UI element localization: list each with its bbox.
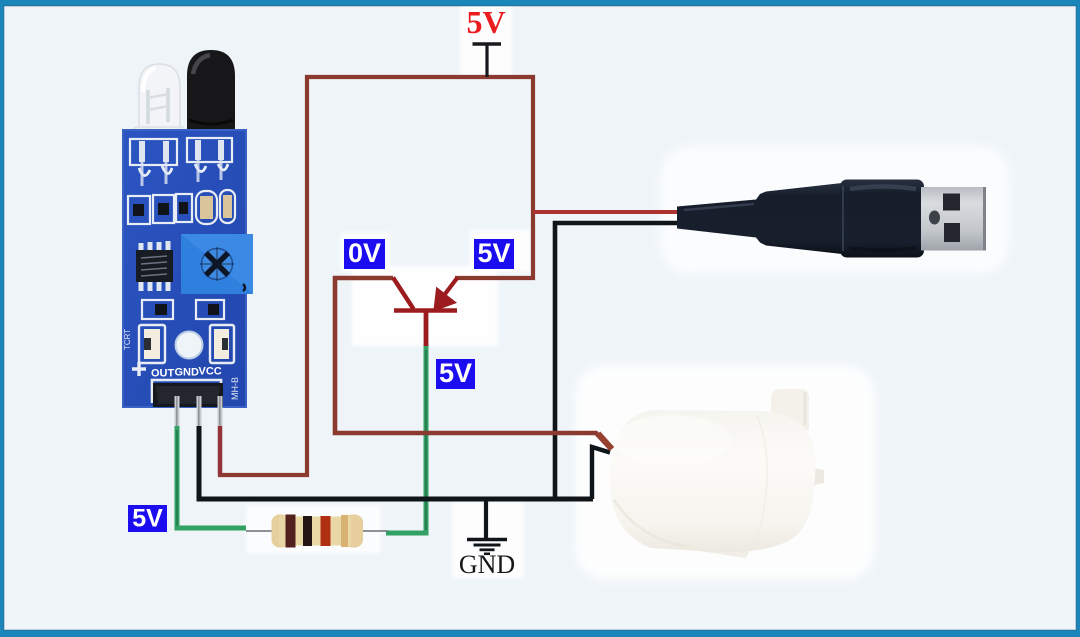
svg-text:5V: 5V bbox=[466, 4, 505, 40]
header pins bbox=[175, 396, 223, 426]
mounting hole bbox=[176, 332, 203, 359]
usb shell hole bbox=[929, 211, 940, 225]
svg-text:GND: GND bbox=[175, 367, 200, 379]
left slant bbox=[393, 278, 414, 310]
sensor PCB bbox=[123, 130, 246, 407]
resistor R1 bbox=[246, 515, 388, 548]
usb cable bbox=[677, 183, 842, 254]
wire: green dark core lines bbox=[176, 430, 178, 526]
svg-text:5V: 5V bbox=[477, 238, 510, 268]
svg-text:MH-B: MH-B bbox=[230, 377, 240, 400]
usb contact windows bbox=[943, 194, 960, 211]
transistor arrow bbox=[435, 289, 456, 311]
right slant bbox=[445, 278, 458, 295]
ground symbol stem bbox=[484, 499, 488, 539]
water pump bbox=[610, 389, 824, 558]
pump red wire thick tip bbox=[598, 434, 612, 450]
wire: transistor emitter green down to resistor right lead bbox=[386, 344, 426, 533]
label box 0V bbox=[344, 239, 385, 269]
pin header block bbox=[153, 383, 223, 407]
wire: 5V rail: sensor VCC up, top rail, down to transistor collector lead bbox=[220, 77, 533, 475]
svg-text:GND: GND bbox=[459, 550, 515, 579]
pump outlet nozzle bbox=[771, 389, 809, 430]
transistor Q1 bbox=[393, 278, 458, 347]
usb metal shell bbox=[921, 187, 986, 251]
small smd pair bbox=[142, 300, 224, 319]
pump side nub bbox=[814, 468, 824, 485]
svg-text:5V: 5V bbox=[132, 505, 163, 533]
svg-text:TCRT: TCRT bbox=[123, 329, 132, 350]
svg-text:VCC: VCC bbox=[199, 366, 222, 378]
plus silk bbox=[132, 362, 146, 376]
usb molded body bbox=[840, 180, 924, 258]
IC U1 bbox=[136, 241, 173, 291]
label box 5V left bbox=[128, 505, 167, 532]
wire: USB black wire down to ground bus bbox=[555, 223, 704, 499]
smd resistors row bbox=[128, 190, 235, 224]
IR LED black bbox=[187, 50, 235, 136]
ground symbol bbox=[467, 540, 507, 554]
IR sensor module bbox=[123, 50, 253, 426]
USB plug bbox=[677, 180, 986, 258]
white patches bbox=[246, 6, 1010, 580]
label box 5V right bbox=[474, 239, 514, 269]
potentiometer RV1 bbox=[181, 234, 253, 294]
pump base plate bbox=[629, 509, 757, 558]
svg-text:0V: 0V bbox=[348, 238, 381, 268]
white LED bbox=[133, 64, 185, 153]
pump main body bbox=[610, 410, 816, 552]
wire: sensor GND black to ground bus bbox=[199, 414, 593, 499]
wire: transistor base lead to pump red wire bbox=[335, 278, 611, 449]
wire: USB red wire from rail bbox=[533, 210, 698, 214]
5V supply symbol bbox=[485, 44, 488, 77]
base bar bbox=[394, 308, 457, 313]
label box 5V middle bbox=[436, 359, 475, 389]
wire: pump black wire to ground bus bbox=[592, 447, 610, 499]
collector stem dark red bbox=[424, 311, 429, 346]
LED pads silk bbox=[130, 139, 177, 165]
indicator LEDs smd bbox=[139, 325, 234, 363]
svg-text:5V: 5V bbox=[439, 358, 472, 388]
connector silk box bbox=[152, 380, 221, 403]
wire: sensor VCC pigtail crimson part bbox=[218, 420, 222, 474]
wire: sensor OUT green to resistor left lead bbox=[177, 416, 246, 528]
svg-text:OUT: OUT bbox=[151, 368, 175, 380]
